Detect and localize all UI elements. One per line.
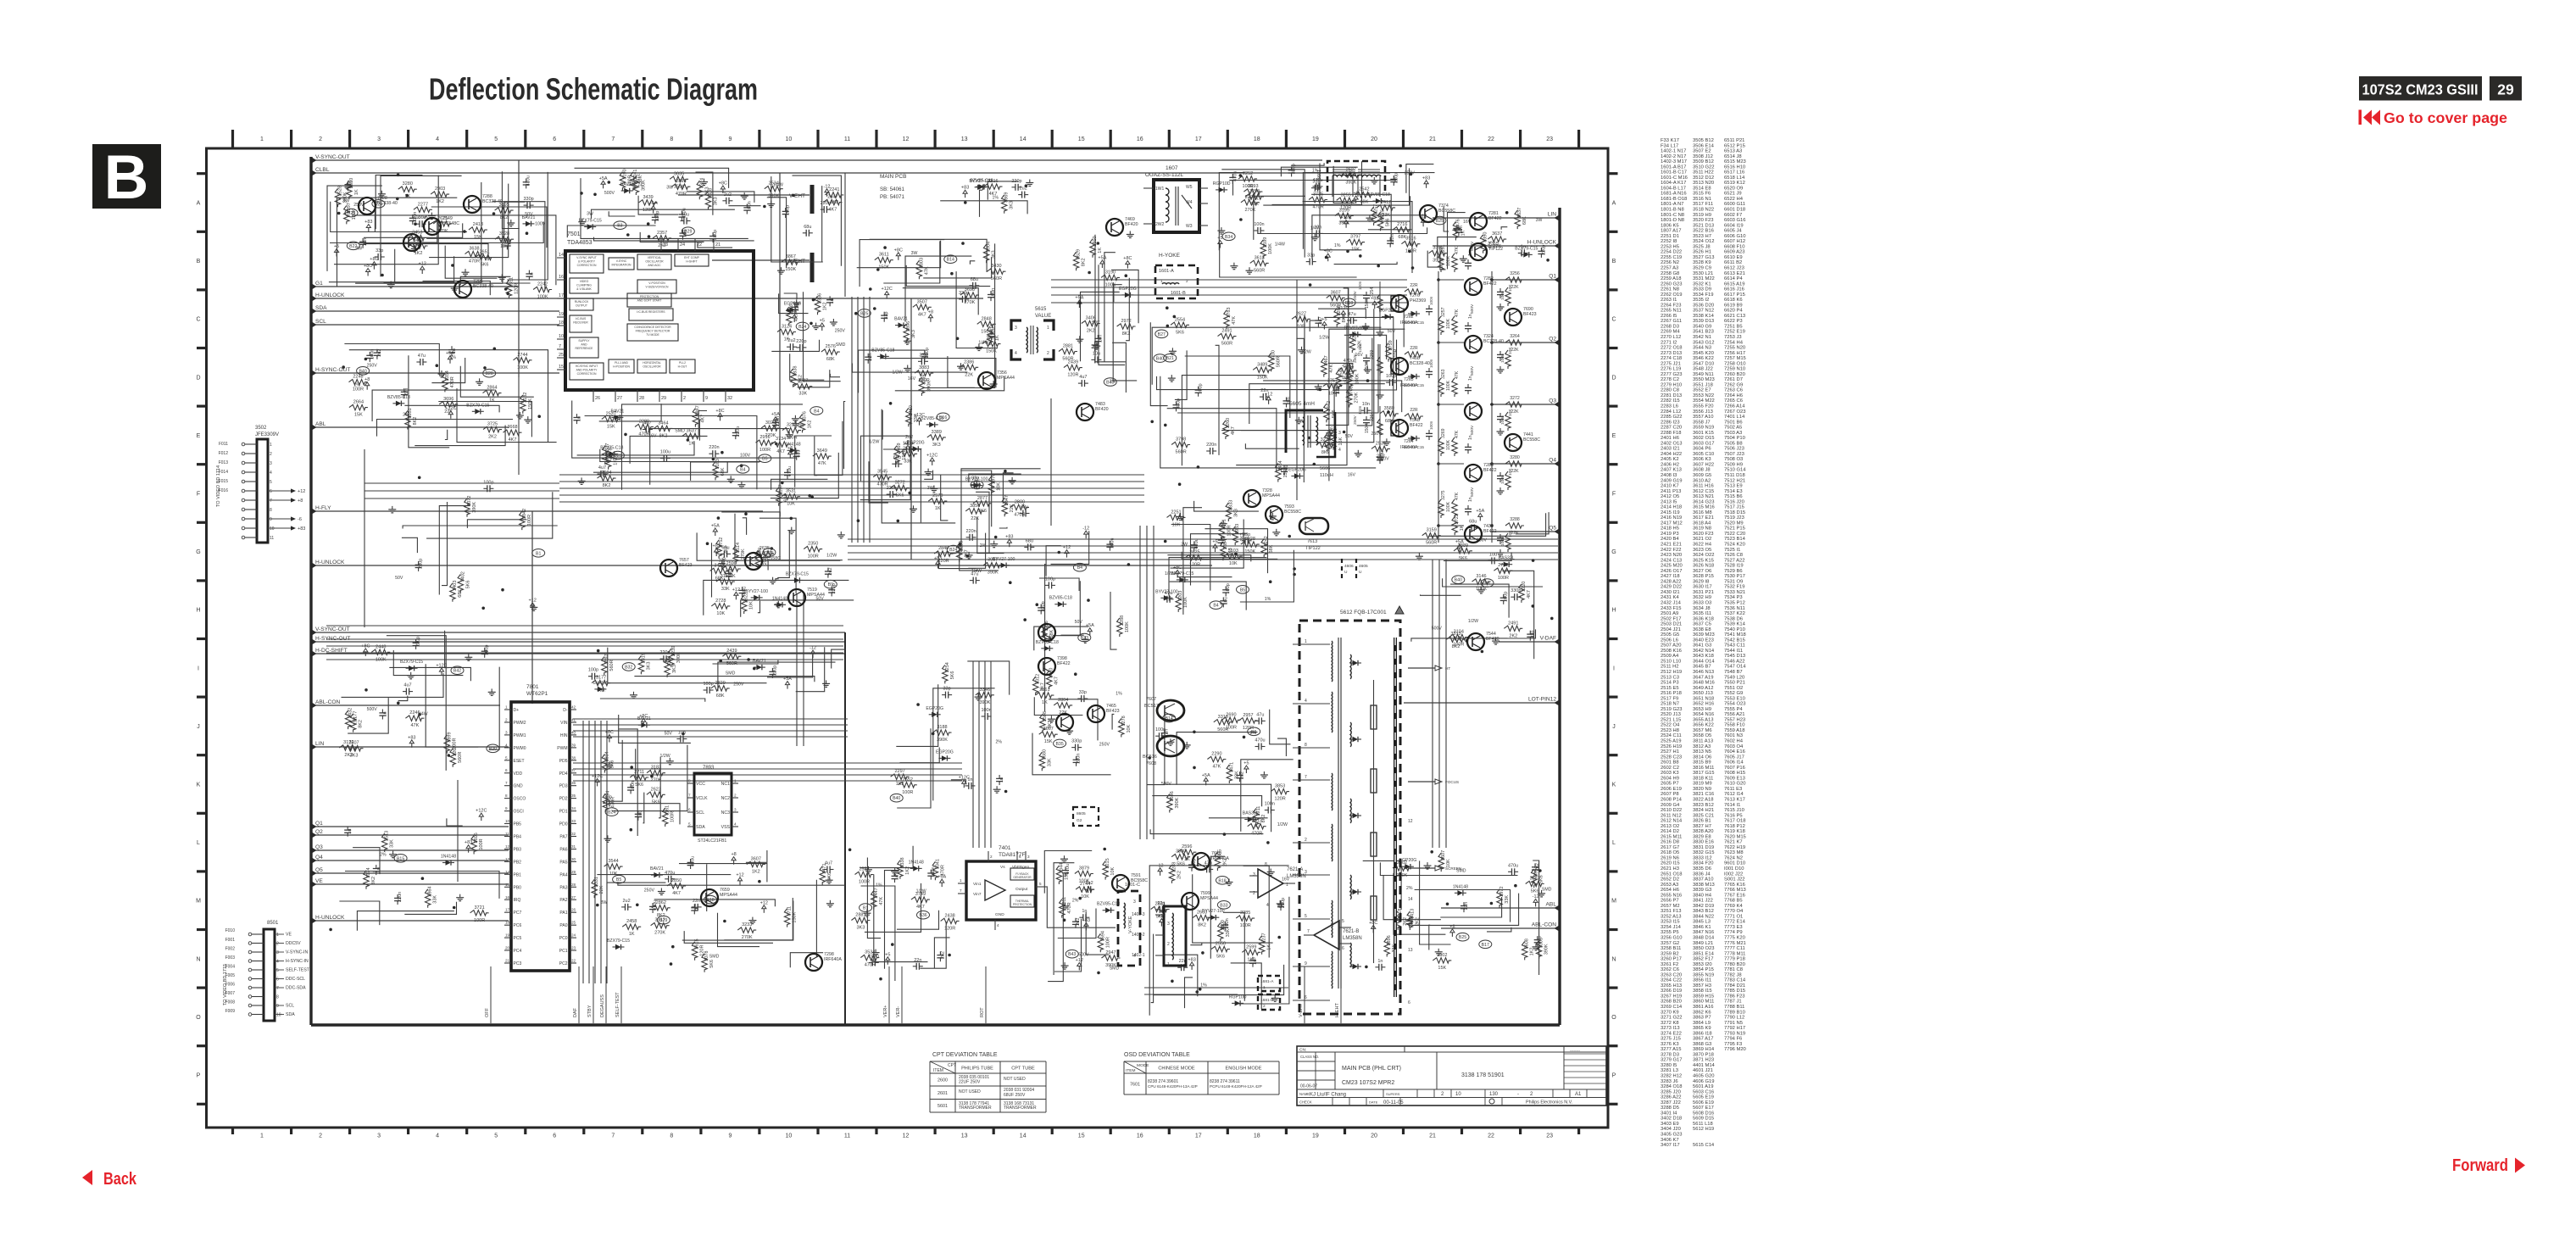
svg-text:V-YOKE: V-YOKE [1128,916,1133,933]
svg-text:V-SYNC-IN: V-SYNC-IN [286,950,308,955]
svg-text:2269 M4: 2269 M4 [1661,330,1680,335]
svg-text:470R: 470R [450,376,455,387]
svg-text:2263 I1: 2263 I1 [1661,298,1677,303]
svg-text:3547 D10: 3547 D10 [1693,361,1714,366]
svg-text:2319: 2319 [641,653,646,663]
svg-text:3283 J6: 3283 J6 [1661,1079,1678,1084]
svg-text:+83: +83 [465,840,472,845]
svg-text:7523 B14: 7523 B14 [1724,537,1746,542]
svg-text:AND POLARITY: AND POLARITY [576,369,598,372]
svg-text:B: B [197,259,201,265]
svg-text:7555 P4: 7555 P4 [1724,707,1743,712]
svg-text:6618 K6: 6618 K6 [1724,298,1743,303]
svg-text:1601-B: 1601-B [1171,291,1186,296]
svg-text:TRANSFORMER: TRANSFORMER [959,1106,992,1111]
svg-text:47K: 47K [924,266,929,275]
svg-text:1W1: 1W1 [1155,187,1165,192]
svg-text:9: 9 [270,517,272,522]
svg-text:B4: B4 [814,409,819,414]
svg-text:3288: 3288 [1510,517,1520,522]
svg-text:7793 N19: 7793 N19 [1724,1031,1745,1036]
svg-text:2%: 2% [996,740,1003,745]
svg-text:2277 G23: 2277 G23 [1661,372,1682,377]
svg-text:3035: 3035 [674,171,684,176]
svg-text:1/2W: 1/2W [1319,335,1329,340]
svg-text:2590: 2590 [726,561,737,566]
svg-text:10u: 10u [1223,597,1228,604]
svg-text:3844 N22: 3844 N22 [1693,914,1714,919]
svg-text:3407 I17: 3407 I17 [1661,1143,1680,1148]
svg-text:BF423: BF423 [679,563,693,568]
svg-text:15K: 15K [1351,248,1360,253]
svg-text:TIP122: TIP122 [1305,546,1321,551]
svg-text:7257 M15: 7257 M15 [1724,356,1746,361]
svg-text:1N4148: 1N4148 [1453,884,1468,889]
svg-text:5608 D16: 5608 D16 [1693,1111,1714,1116]
svg-text:PCPU 6148-K420PH-12A 42P: PCPU 6148-K420PH-12A 42P [1210,1084,1262,1089]
svg-text:33K: 33K [721,587,730,592]
svg-text:TDA8177F: TDA8177F [999,852,1025,858]
svg-text:100K: 100K [1446,255,1451,266]
svg-text:100K: 100K [517,365,528,370]
svg-text:1807 A17: 1807 A17 [1661,229,1682,234]
svg-text:2550: 2550 [1216,942,1226,947]
svg-text:+12: +12 [732,588,740,593]
svg-text:B24: B24 [798,325,806,330]
svg-text:100K: 100K [1268,243,1273,254]
svg-text:B4: B4 [1077,565,1082,571]
svg-text:68u: 68u [721,545,729,550]
svg-text:PWM0: PWM0 [514,746,526,751]
svg-text:2947: 2947 [1105,950,1116,955]
svg-text:470u: 470u [691,856,696,866]
svg-text:470u: 470u [1194,538,1199,549]
svg-text:5601: 5601 [937,1104,948,1109]
svg-text:+83: +83 [364,220,372,225]
svg-text:19: 19 [1312,1133,1319,1139]
svg-text:3843 B12: 3843 B12 [1693,909,1714,914]
svg-text:3263 C20: 3263 C20 [1661,972,1682,977]
svg-text:VSS: VSS [721,825,731,830]
svg-text:NC2: NC2 [721,796,730,801]
svg-text:Q5: Q5 [1549,526,1556,532]
svg-text:2864: 2864 [487,386,497,391]
svg-text:150K: 150K [528,398,533,409]
svg-text:7893: 7893 [703,766,715,771]
svg-text:6: 6 [270,489,272,494]
svg-text:7542 B15: 7542 B15 [1724,638,1745,643]
svg-text:47K: 47K [1455,430,1460,438]
svg-text:13: 13 [961,1133,968,1139]
svg-text:2357: 2357 [657,231,667,236]
svg-text:B: B [1612,259,1616,265]
svg-text:7505 B8: 7505 B8 [1724,441,1743,446]
svg-text:3531: 3531 [786,489,796,494]
svg-text:7622 H19: 7622 H19 [1724,845,1745,850]
svg-text:33p: 33p [1307,253,1315,259]
svg-text:50V: 50V [1388,329,1396,334]
svg-text:47u: 47u [1538,936,1543,944]
svg-text:7259 N10: 7259 N10 [1724,367,1745,372]
svg-text:3835 D6: 3835 D6 [1693,866,1711,872]
svg-text:330p: 330p [1292,164,1297,174]
svg-text:2254 D22: 2254 D22 [1661,250,1682,255]
svg-text:220p: 220p [419,559,424,569]
svg-text:10R: 10R [1297,324,1305,329]
svg-text:560R: 560R [991,276,1002,281]
svg-text:7530 P17: 7530 P17 [1724,574,1745,579]
svg-text:120R: 120R [1189,563,1200,568]
svg-text:7791 N5: 7791 N5 [1724,1021,1743,1026]
svg-text:28: 28 [571,883,576,887]
svg-text:33p: 33p [1336,387,1341,394]
svg-text:4: 4 [436,1133,439,1139]
svg-text:3220: 3220 [1522,582,1527,592]
svg-text:2625: 2625 [1189,550,1199,555]
svg-text:2242: 2242 [1264,536,1269,546]
svg-text:100n: 100n [931,866,936,877]
svg-text:PB4: PB4 [514,835,522,840]
svg-text:11: 11 [1408,922,1412,927]
svg-text:40: 40 [571,730,576,734]
svg-text:+12: +12 [1076,958,1083,963]
svg-text:7558 F10: 7558 F10 [1724,723,1745,728]
svg-text:CM23 107S2 MPR2: CM23 107S2 MPR2 [1342,1080,1394,1086]
svg-text:7772 E14: 7772 E14 [1724,920,1746,925]
svg-text:3556 J13: 3556 J13 [1693,409,1713,415]
svg-text:2651: 2651 [479,250,489,255]
svg-text:3K3: 3K3 [932,443,941,448]
svg-text:J: J [197,724,200,730]
svg-text:2607 P8: 2607 P8 [1661,792,1679,797]
svg-text:2783: 2783 [1227,308,1232,318]
svg-text:1601-B C17: 1601-B C17 [1661,170,1687,175]
svg-text:7559 A18: 7559 A18 [1724,728,1745,733]
svg-text:BC328-40: BC328-40 [482,199,503,204]
svg-text:7547 O14: 7547 O14 [1724,665,1746,670]
svg-text:10K: 10K [716,611,725,616]
svg-text:7256 H17: 7256 H17 [1724,351,1745,356]
svg-text:3511 H22: 3511 H22 [1693,170,1714,175]
svg-text:7765 K16: 7765 K16 [1724,883,1745,888]
svg-text:BAV21: BAV21 [650,866,664,872]
svg-text:SCL: SCL [315,319,326,325]
svg-text:4u7: 4u7 [1079,375,1087,380]
svg-text:+5A: +5A [649,201,658,206]
svg-text:470u: 470u [653,900,658,911]
svg-text:15K: 15K [607,424,615,429]
svg-text:2439: 2439 [726,649,737,654]
svg-text:1K2: 1K2 [905,866,910,875]
svg-text:+12: +12 [1063,545,1071,550]
svg-text:15K: 15K [474,235,482,240]
svg-text:SMD: SMD [675,429,685,434]
svg-text:3281 L3: 3281 L3 [1661,1068,1678,1073]
svg-text:35: 35 [571,794,576,798]
svg-text:7621-B: 7621-B [1343,929,1359,934]
svg-text:-12: -12 [810,646,816,651]
svg-text:2417 M12: 2417 M12 [1661,521,1683,526]
svg-text:2K2: 2K2 [1509,633,1517,638]
svg-text:DDC5V: DDC5V [286,941,301,946]
svg-text:-12: -12 [1082,526,1089,532]
svg-text:470u: 470u [992,327,997,337]
svg-text:Q3: Q3 [1549,398,1556,404]
svg-text:4K7: 4K7 [700,415,705,423]
svg-text:2%: 2% [1406,886,1413,891]
svg-text:+12C: +12C [445,406,456,411]
svg-text:H-SYNC-IN: H-SYNC-IN [286,959,309,964]
svg-text:F34 L17: F34 L17 [1661,143,1678,148]
svg-text:5601: 5601 [1317,170,1322,180]
svg-text:4u7: 4u7 [598,465,606,471]
svg-text:P: P [1612,1073,1616,1079]
svg-text:V-DAF: V-DAF [1540,636,1556,642]
svg-text:1607: 1607 [1166,165,1178,171]
svg-text:W4: W4 [1186,200,1193,205]
svg-text:220n: 220n [1077,754,1082,764]
svg-text:S001 J22: S001 J22 [1724,877,1745,883]
svg-text:3646 N13: 3646 N13 [1693,670,1714,675]
svg-text:3536 D20: 3536 D20 [1693,303,1714,308]
svg-text:7611 E3: 7611 E3 [1724,787,1742,792]
svg-text:O: O [1611,1015,1616,1021]
svg-text:PC2: PC2 [559,961,568,966]
svg-text:1/4W: 1/4W [971,569,982,574]
svg-text:100R: 100R [1453,643,1464,648]
svg-text:7552 G9: 7552 G9 [1724,691,1743,696]
svg-text:390K: 390K [472,502,477,513]
svg-text:7: 7 [611,136,615,142]
svg-text:VCC: VCC [696,782,705,787]
svg-text:6: 6 [1019,855,1021,859]
svg-text:3389: 3389 [932,430,942,435]
svg-text:150K: 150K [1365,423,1370,433]
svg-text:+5: +5 [334,244,339,249]
svg-text:+12C: +12C [592,774,603,779]
svg-text:7617 O18: 7617 O18 [1724,819,1745,824]
svg-text:2284 L12: 2284 L12 [1661,409,1681,415]
svg-text:V-SYNC-OUT: V-SYNC-OUT [315,154,350,160]
svg-text:3: 3 [1133,899,1136,905]
svg-text:BF422: BF422 [1057,661,1071,666]
svg-text:10n: 10n [678,731,686,736]
svg-text:2260: 2260 [1226,418,1231,428]
svg-text:+5A: +5A [1086,623,1094,628]
svg-text:1: 1 [1167,962,1170,967]
svg-text:3866 I18: 3866 I18 [1693,1031,1712,1036]
svg-text:6622 P3: 6622 P3 [1724,319,1743,324]
svg-text:100n: 100n [1500,415,1505,425]
svg-text:2612 N14: 2612 N14 [1661,819,1683,824]
svg-text:7780 B20: 7780 B20 [1724,962,1745,967]
svg-text:2403: 2403 [453,581,458,591]
svg-text:2896: 2896 [906,321,911,331]
svg-text:7: 7 [270,498,272,504]
svg-text:B40: B40 [893,796,900,801]
svg-text:2K2: 2K2 [488,435,497,440]
svg-text:7267 O23: 7267 O23 [1724,409,1745,415]
svg-text:7608 H15: 7608 H15 [1724,771,1745,776]
svg-text:B5: B5 [616,877,621,883]
svg-text:4: 4 [1305,699,1307,704]
svg-text:1: 1 [1160,279,1163,283]
svg-text:V-SYNC-OUT: V-SYNC-OUT [315,627,350,632]
svg-text:3667: 3667 [1043,727,1054,732]
svg-text:7532 F19: 7532 F19 [1724,585,1745,590]
svg-text:8K2: 8K2 [500,215,509,220]
svg-text:22: 22 [571,959,576,963]
svg-text:7261 D7: 7261 D7 [1724,377,1743,382]
svg-text:2606 E19: 2606 E19 [1661,787,1682,792]
svg-text:B16: B16 [939,415,947,420]
svg-text:7792 H17: 7792 H17 [1724,1026,1745,1031]
svg-text:LOT-PIN12: LOT-PIN12 [1528,697,1556,703]
svg-text:+83: +83 [408,735,415,740]
svg-text:HIN: HIN [560,733,568,738]
svg-text:10: 10 [276,1013,281,1018]
svg-text:5K6: 5K6 [635,783,643,788]
svg-text:H: H [1611,608,1616,614]
svg-text:10: 10 [786,1133,793,1139]
svg-text:2711: 2711 [634,770,644,775]
svg-text:3858 I15: 3858 I15 [1693,989,1712,994]
svg-text:00-11-05: 00-11-05 [1383,1100,1404,1106]
svg-text:3668: 3668 [507,425,517,430]
svg-text:PROTECTION: PROTECTION [1013,903,1032,906]
svg-text:FOCUS: FOCUS [1445,780,1459,784]
svg-text:9: 9 [505,806,508,810]
svg-text:470R: 470R [865,963,876,968]
svg-text:3601 K15: 3601 K15 [1693,431,1714,436]
svg-text:3862 K6: 3862 K6 [1693,1010,1711,1015]
svg-text:6613 E21: 6613 E21 [1724,271,1745,276]
svg-text:7789 B10: 7789 B10 [1724,1010,1745,1015]
svg-text:5: 5 [688,822,691,827]
svg-text:VCLK: VCLK [696,796,708,801]
svg-text:2426 O17: 2426 O17 [1661,569,1682,574]
svg-text:1801-A N7: 1801-A N7 [1661,202,1683,207]
svg-text:6609 A23: 6609 A23 [1724,250,1745,255]
svg-text:100u: 100u [415,215,426,220]
svg-text:23: 23 [1546,136,1553,142]
svg-text:3608: 3608 [1525,938,1530,949]
svg-text:3868 G3: 3868 G3 [1693,1042,1711,1047]
svg-text:36: 36 [571,781,576,785]
svg-text:Go to cover page: Go to cover page [2384,109,2507,126]
svg-text:33K: 33K [1047,758,1052,766]
svg-text:100R: 100R [479,838,484,849]
svg-text:2277: 2277 [418,202,428,207]
svg-text:3658 O5: 3658 O5 [1693,733,1711,738]
svg-text:560R: 560R [726,661,737,666]
svg-text:2260 G23: 2260 G23 [1661,281,1682,287]
svg-text:3233: 3233 [742,922,752,927]
svg-text:1801-D N8: 1801-D N8 [1661,218,1684,223]
svg-text:1: 1 [1047,326,1049,331]
svg-text:2425 M20: 2425 M20 [1661,564,1683,569]
svg-text:1681-A: 1681-A [1260,979,1274,984]
svg-text:3183: 3183 [651,766,661,771]
svg-text:17: 17 [505,908,510,912]
svg-text:SCREEN: SCREEN [1445,866,1461,871]
svg-text:1n: 1n [1468,314,1473,319]
svg-text:7546 A22: 7546 A22 [1724,660,1745,665]
svg-text:2401 H6: 2401 H6 [1661,436,1679,441]
svg-text:2513: 2513 [385,831,390,841]
svg-text:34: 34 [571,806,576,810]
svg-text:VE: VE [315,878,323,884]
svg-text:Q2: Q2 [315,829,323,835]
svg-text:I: I [1613,666,1615,671]
svg-text:3820 N9: 3820 N9 [1693,787,1711,792]
svg-text:VER+: VER+ [883,1005,888,1017]
svg-text:22K: 22K [965,372,973,377]
svg-text:2601 B8: 2601 B8 [1661,760,1679,766]
svg-text:3264 C22: 3264 C22 [1661,978,1682,983]
svg-text:BC558C: BC558C [1438,209,1455,214]
svg-text:3542 N1: 3542 N1 [1693,335,1711,340]
svg-text:1/2W: 1/2W [826,554,837,559]
svg-text:150K: 150K [1257,375,1268,380]
svg-text:3531 M22: 3531 M22 [1693,276,1715,281]
svg-text:6516 H10: 6516 H10 [1724,164,1745,170]
svg-text:Output: Output [1015,887,1028,892]
svg-text:B1: B1 [536,551,541,556]
svg-text:10u: 10u [1093,351,1100,356]
svg-text:2276 L19: 2276 L19 [1661,367,1681,372]
svg-text:3174: 3174 [366,867,371,877]
svg-text:9: 9 [276,1004,279,1009]
svg-text:3278 D3: 3278 D3 [1661,1052,1679,1057]
svg-text:220p: 220p [1011,179,1021,184]
svg-text:3507: 3507 [348,741,359,746]
svg-text:+8: +8 [298,498,303,504]
svg-text:+8: +8 [1345,366,1350,371]
svg-text:2511 H2: 2511 H2 [1661,665,1679,670]
svg-text:470u: 470u [665,871,675,876]
svg-text:1n: 1n [999,777,1004,783]
svg-text:3256: 3256 [1510,271,1520,276]
svg-text:7613: 7613 [1307,539,1317,544]
svg-text:F002: F002 [225,947,236,952]
svg-text:2429 D22: 2429 D22 [1661,585,1682,590]
svg-text:RECEIVER: RECEIVER [573,321,588,325]
svg-text:2: 2 [1263,1004,1266,1009]
svg-text:1/2W: 1/2W [893,370,903,375]
svg-text:100R: 100R [808,554,819,560]
svg-text:3528: 3528 [499,231,509,237]
svg-text:8: 8 [505,794,508,798]
svg-text:100p: 100p [703,682,713,687]
svg-text:3: 3 [505,730,508,734]
svg-text:2259 A18: 2259 A18 [1661,276,1682,281]
svg-text:3402 D18: 3402 D18 [1661,1117,1682,1122]
svg-text:100K: 100K [376,657,387,662]
svg-text:3651 N18: 3651 N18 [1693,696,1714,701]
svg-text:H-UNLOCK: H-UNLOCK [1527,240,1557,246]
svg-text:7506 J23: 7506 J23 [1724,447,1744,452]
svg-text:2716: 2716 [1397,222,1407,227]
svg-text:7783 C14: 7783 C14 [1724,978,1746,983]
svg-text:2527 H1: 2527 H1 [1661,749,1679,755]
svg-text:3: 3 [1338,431,1341,436]
svg-text:7554 O23: 7554 O23 [1724,702,1745,707]
svg-text:IRF640A: IRF640A [824,957,842,962]
svg-text:KJ Liu/IF Chang: KJ Liu/IF Chang [1310,1093,1346,1098]
svg-text:470u: 470u [526,175,531,186]
svg-text:7778 M11: 7778 M11 [1724,951,1745,956]
